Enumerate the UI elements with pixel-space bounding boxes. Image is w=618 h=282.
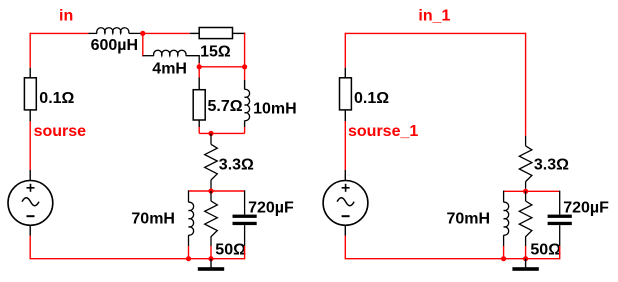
- resistor 50 ohm: [205, 191, 218, 259]
- inductor 10mH: [245, 67, 250, 134]
- svg-text:3.3Ω: 3.3Ω: [219, 157, 254, 174]
- inductor 70mH (right): [504, 191, 509, 259]
- wire top horizontal (net in_1): [345, 32, 525, 34]
- svg-text:5.7Ω: 5.7Ω: [208, 98, 243, 115]
- wire source to rail (right): [344, 236, 346, 260]
- svg-text:70mH: 70mH: [131, 211, 175, 228]
- svg-text:4mH: 4mH: [152, 61, 187, 78]
- svg-text:in: in: [59, 7, 73, 24]
- svg-text:sourse_1: sourse_1: [348, 123, 418, 140]
- wire row under 5.7ohm and 10mH: [199, 132, 244, 134]
- svg-text:50Ω: 50Ω: [215, 242, 246, 259]
- wire 3.3ohm to junction row5: [210, 188, 212, 191]
- wire bottom rail (right): [345, 258, 559, 260]
- wire top-left horizontal (net in): [30, 32, 88, 34]
- svg-text:in_1: in_1: [418, 7, 450, 24]
- node junction row5: [208, 188, 213, 193]
- node junction J2: [197, 64, 202, 69]
- svg-text:0.1Ω: 0.1Ω: [39, 90, 74, 107]
- wire J1 down: [142, 33, 144, 56]
- wire J1 to 15ohm: [143, 32, 190, 34]
- node junction rail-ground (right): [523, 256, 528, 261]
- node junction rail-ground: [208, 256, 213, 261]
- node junction J1: [140, 31, 145, 36]
- wire sourse_1 net: [344, 121, 346, 170]
- inductor 4mH: [143, 50, 199, 63]
- wire 4mH down to J2: [198, 63, 200, 67]
- svg-text:3.3Ω: 3.3Ω: [534, 157, 569, 174]
- svg-text:600µH: 600µH: [91, 37, 138, 54]
- ac source V1: [8, 170, 53, 236]
- ground right: [512, 259, 538, 271]
- wire J2 to J3: [199, 66, 244, 68]
- node junction rail-70mH: [186, 256, 191, 261]
- wire left vertical (net in): [29, 33, 31, 68]
- resistor 3.3 ohm (right): [519, 136, 532, 189]
- node junction rail-70mH (right): [501, 256, 506, 261]
- svg-text:720µF: 720µF: [563, 200, 609, 217]
- svg-text:50Ω: 50Ω: [530, 242, 561, 259]
- resistor 0.1 ohm: [24, 68, 36, 121]
- wire right branch vertical from 15ohm: [244, 33, 246, 67]
- svg-text:720µF: 720µF: [248, 200, 294, 217]
- svg-text:sourse: sourse: [34, 123, 87, 140]
- wire left vertical (net in_1): [344, 33, 346, 68]
- wire sourse net: [29, 121, 31, 170]
- svg-text:70mH: 70mH: [447, 211, 491, 228]
- inductor 70mH: [189, 190, 194, 258]
- resistor 5.7 ohm: [193, 67, 205, 134]
- ac source V2: [323, 170, 368, 236]
- resistor 3.3 ohm: [205, 133, 218, 188]
- node junction row5 (right): [523, 189, 528, 194]
- inductor 600uH: [89, 28, 143, 34]
- capacitor 720uF: [233, 190, 257, 259]
- resistor 50 ohm (right): [519, 191, 532, 258]
- capacitor 720uF (right): [548, 191, 572, 260]
- wire source to rail: [29, 236, 31, 260]
- svg-text:0.1Ω: 0.1Ω: [354, 90, 389, 107]
- wire row5 horizontal (right): [504, 190, 560, 192]
- wire row5 horizontal: [189, 190, 245, 192]
- resistor 0.1 ohm (right): [340, 68, 352, 121]
- svg-text:15Ω: 15Ω: [200, 43, 231, 60]
- resistor 15 ohm: [190, 28, 246, 39]
- ground left: [198, 259, 224, 271]
- node junction row4: [208, 131, 213, 136]
- svg-text:10mH: 10mH: [253, 101, 297, 118]
- wire 3.3ohm to junction row5 (right): [525, 189, 527, 192]
- wire bottom rail: [30, 258, 244, 260]
- node junction J3: [242, 64, 247, 69]
- wire right vertical (net in_1): [525, 33, 527, 136]
